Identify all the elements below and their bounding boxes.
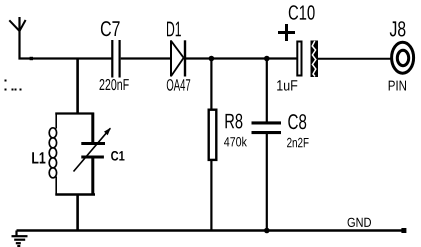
junction node at C8	[264, 56, 270, 62]
stray text dots	[5, 80, 22, 91]
wire D1 to C10	[185, 57, 297, 59]
net label GND	[348, 218, 371, 227]
wire antenna to C7	[19, 57, 112, 59]
inductor L1 label	[32, 152, 45, 163]
tank right wire bottom	[91, 159, 94, 196]
inductor L1	[49, 128, 56, 178]
resistor R8	[209, 110, 247, 160]
capacitor C7	[100, 21, 129, 90]
capacitor C10	[277, 5, 318, 90]
junction node at R8	[209, 56, 215, 62]
tank bottom wire	[55, 193, 95, 195]
connector J8	[389, 21, 414, 90]
junction node C8 at rail	[264, 228, 270, 234]
tank left wire top	[55, 113, 57, 129]
ground	[12, 231, 28, 247]
wire junction to C8	[266, 59, 268, 122]
capacitor C8	[252, 114, 309, 147]
diode D1	[167, 22, 190, 91]
ground rail wire	[17, 229, 407, 231]
wire C7 to D1	[121, 57, 171, 59]
wire C8 to ground rail	[266, 134, 268, 231]
tank top wire	[55, 112, 94, 114]
capacitor C10 polarity plus	[278, 24, 295, 41]
rail end node dot	[401, 228, 406, 233]
wire C10 to J8	[318, 58, 391, 60]
tank left wire bottom	[55, 177, 57, 196]
wire tank to ground rail	[76, 195, 79, 231]
variable capacitor C1	[74, 128, 125, 172]
node dot near antenna	[30, 57, 33, 60]
wire junction to R8	[210, 59, 212, 110]
tank right wire top	[91, 113, 94, 143]
antenna	[9, 17, 25, 60]
wire main to tank feed	[76, 59, 79, 114]
wire R8 to ground rail	[210, 161, 212, 231]
